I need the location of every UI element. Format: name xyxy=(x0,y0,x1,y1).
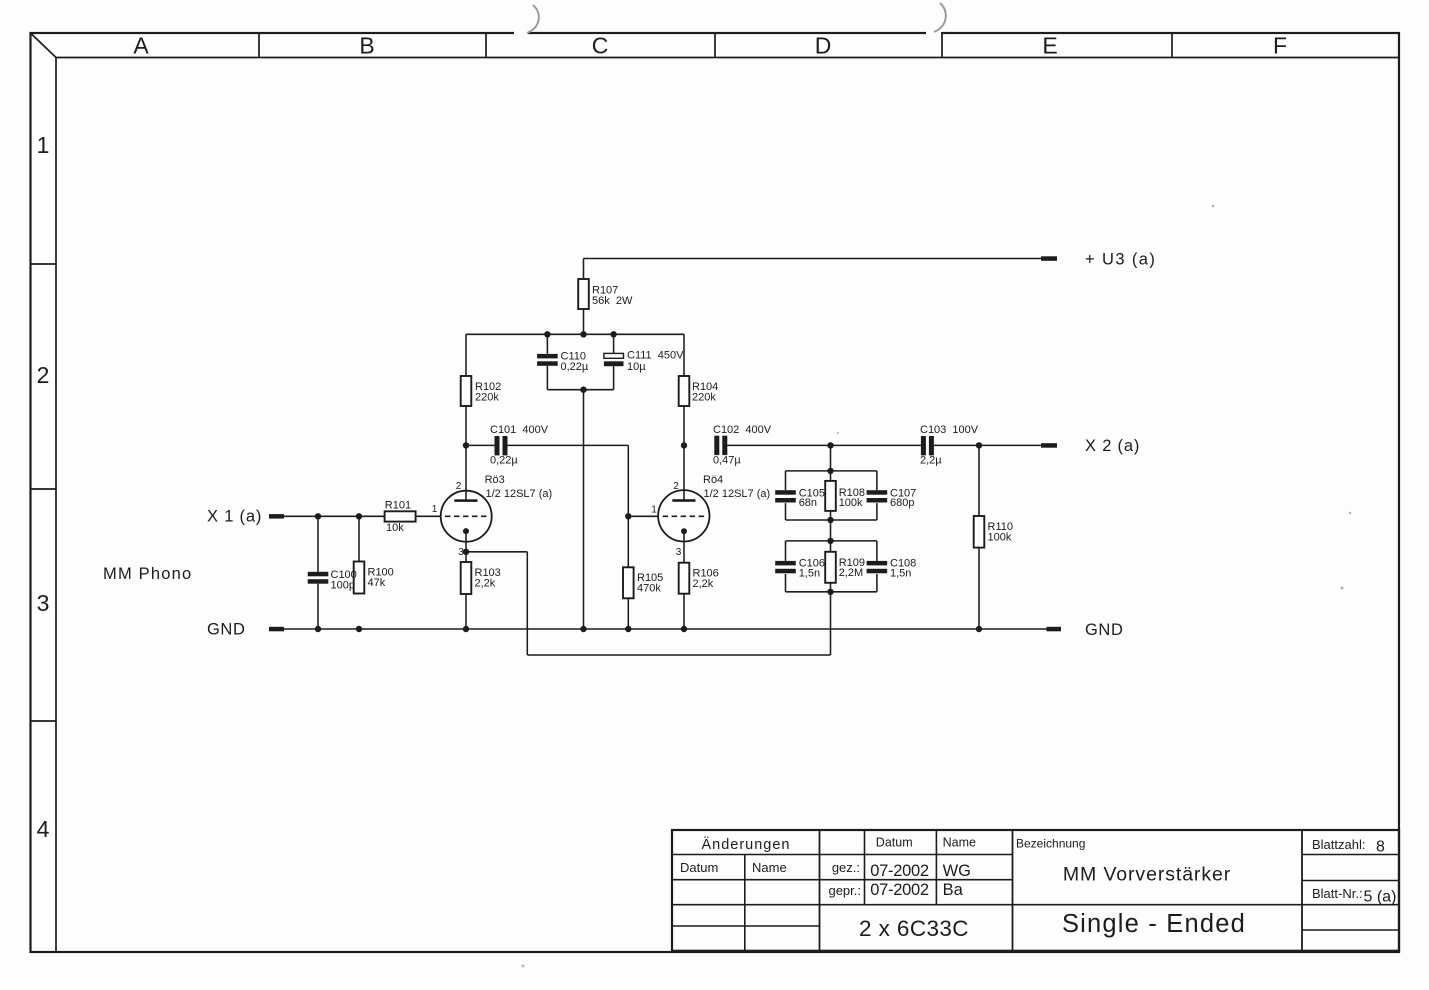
svg-text:GND: GND xyxy=(207,621,245,639)
node R100 top xyxy=(356,513,362,519)
svg-text:X 1 (a): X 1 (a) xyxy=(207,508,262,526)
svg-text:C111 450V: C111 450V xyxy=(627,350,684,362)
svg-text:2,2M: 2,2M xyxy=(839,567,863,579)
resistor R102 xyxy=(465,334,467,376)
svg-text:680p: 680p xyxy=(890,497,914,509)
svg-text:1/2 12SL7 (a): 1/2 12SL7 (a) xyxy=(704,488,771,500)
resistor R109 xyxy=(825,552,836,583)
svg-text:0,22µ: 0,22µ xyxy=(490,454,518,466)
node C100 top xyxy=(315,513,321,519)
svg-text:B: B xyxy=(359,33,374,59)
wire feedback run horizontal xyxy=(527,654,830,656)
capacitor C108 xyxy=(867,561,888,566)
faint scan specks xyxy=(1212,205,1215,208)
svg-text:A: A xyxy=(133,33,149,59)
terminal X 2 (a) xyxy=(1041,443,1057,448)
row tick 2|3 xyxy=(31,488,57,490)
svg-text:Änderungen: Änderungen xyxy=(701,836,790,853)
wire top node row xyxy=(466,333,684,335)
wire C110/C111 bottom xyxy=(547,389,613,391)
node GND decoupling xyxy=(580,626,586,632)
node GND R110 xyxy=(976,626,982,632)
wire grid lead Ro4 xyxy=(628,515,658,517)
column tick D|E xyxy=(941,33,943,58)
svg-text:2,2µ: 2,2µ xyxy=(920,454,942,466)
svg-text:C: C xyxy=(592,33,609,59)
svg-text:2,2k: 2,2k xyxy=(475,578,496,590)
node anode Ro4 / C102 xyxy=(681,442,687,448)
svg-text:10µ: 10µ xyxy=(627,361,646,373)
svg-text:MM Vorverstärker: MM Vorverstärker xyxy=(1063,864,1231,886)
node decoupling ground branch xyxy=(580,387,586,393)
capacitor C105 xyxy=(775,490,796,495)
svg-text:Name: Name xyxy=(752,860,787,875)
scan artifact curl left xyxy=(514,31,528,35)
svg-text:100k: 100k xyxy=(839,497,863,509)
svg-text:1: 1 xyxy=(651,505,657,516)
svg-text:3: 3 xyxy=(37,590,50,616)
node GND R106 xyxy=(681,626,687,632)
svg-text:2: 2 xyxy=(37,362,50,388)
node upper box top xyxy=(827,468,833,474)
node lower box bottom xyxy=(827,589,833,595)
svg-text:100k: 100k xyxy=(988,532,1012,544)
triode U Ro3 xyxy=(441,491,492,552)
capacitor C101 xyxy=(466,444,495,446)
svg-text:1: 1 xyxy=(432,504,438,515)
input terminal X 1 (a) xyxy=(269,514,284,519)
resistor R105 xyxy=(627,516,629,567)
capacitor C106 xyxy=(775,561,796,566)
svg-text:470k: 470k xyxy=(637,583,661,595)
svg-text:E: E xyxy=(1042,33,1057,59)
svg-text:D: D xyxy=(815,33,832,59)
node grid Ro4 / R105 xyxy=(625,513,631,519)
wire GND rail xyxy=(284,628,1047,630)
node GND R103 xyxy=(463,626,469,632)
wire R101 to grid Ro3 xyxy=(416,515,441,517)
svg-text:+ U3 (a): + U3 (a) xyxy=(1085,251,1156,269)
node C111 top xyxy=(610,331,616,337)
svg-text:Ba: Ba xyxy=(943,881,964,899)
capacitor C110 xyxy=(546,334,548,354)
terminal + U3 (a) xyxy=(1041,256,1057,261)
svg-text:2 x 6C33C: 2 x 6C33C xyxy=(859,916,969,941)
svg-text:4: 4 xyxy=(37,816,50,842)
svg-text:8: 8 xyxy=(1376,839,1385,856)
svg-text:Rö3: Rö3 xyxy=(485,474,505,486)
svg-text:2: 2 xyxy=(456,481,462,492)
frame header inner lines xyxy=(56,57,1399,59)
terminal GND left xyxy=(269,627,284,632)
node lower box top xyxy=(827,538,833,544)
wire +U3 supply rail xyxy=(584,258,1050,260)
node RIAA network top xyxy=(827,442,833,448)
resistor R110 xyxy=(978,445,980,516)
svg-text:F: F xyxy=(1273,33,1287,59)
scan artifact curl right xyxy=(926,31,941,35)
RIAA network upper box C105 R108 C107 xyxy=(786,445,877,541)
node upper box bottom xyxy=(827,517,833,523)
svg-text:68n: 68n xyxy=(799,497,817,509)
svg-text:10k: 10k xyxy=(386,522,404,534)
capacitor C107 xyxy=(867,490,888,495)
node GND R100 xyxy=(356,626,362,632)
svg-text:1/2 12SL7 (a): 1/2 12SL7 (a) xyxy=(486,488,553,500)
svg-text:WG: WG xyxy=(943,862,971,880)
wire R107 to node row xyxy=(583,309,585,334)
svg-text:Single - Ended: Single - Ended xyxy=(1062,910,1246,938)
svg-text:Name: Name xyxy=(943,836,976,850)
svg-text:X 2 (a): X 2 (a) xyxy=(1085,437,1140,455)
wire decoupling to GND xyxy=(583,390,585,629)
svg-text:Datum: Datum xyxy=(680,860,718,875)
row tick 1|2 xyxy=(31,263,57,265)
node GND R105 xyxy=(625,626,631,632)
capacitor C102 xyxy=(714,436,719,455)
node C110 top xyxy=(544,331,550,337)
node R110 top xyxy=(976,442,982,448)
svg-text:47k: 47k xyxy=(368,577,386,589)
wire X1 input line xyxy=(284,515,385,517)
svg-text:Blatt-Nr.:: Blatt-Nr.: xyxy=(1312,886,1363,901)
node anode Ro3 / C101 xyxy=(463,442,469,448)
svg-text:1,5n: 1,5n xyxy=(799,568,820,580)
svg-text:100p: 100p xyxy=(331,580,355,592)
svg-text:1: 1 xyxy=(37,132,50,158)
title block verticals xyxy=(745,830,1302,951)
column tick C|D xyxy=(714,33,716,58)
resistor R104 xyxy=(683,334,685,376)
svg-text:Rö4: Rö4 xyxy=(703,474,723,486)
resistor R100 xyxy=(358,516,360,561)
svg-text:3: 3 xyxy=(676,547,682,558)
frame corner diagonal xyxy=(31,33,57,58)
resistor R103 xyxy=(465,552,467,562)
svg-text:2,2k: 2,2k xyxy=(693,578,714,590)
svg-text:GND: GND xyxy=(1085,621,1123,639)
resistor R101 xyxy=(385,511,416,521)
svg-text:C103 100V: C103 100V xyxy=(920,424,979,436)
title block horizontals xyxy=(672,855,1399,931)
RIAA network lower box C106 R109 C108 xyxy=(786,541,877,592)
wire R102 to anode xyxy=(465,406,467,501)
capacitor C111 (electrolytic) xyxy=(613,334,615,353)
column tick B|C xyxy=(485,33,487,58)
svg-text:56k 2W: 56k 2W xyxy=(592,295,633,307)
svg-text:220k: 220k xyxy=(475,392,499,404)
capacitor C103 xyxy=(921,436,926,455)
row tick 3|4 xyxy=(31,720,57,722)
svg-text:07-2002: 07-2002 xyxy=(870,881,929,899)
svg-text:0,22µ: 0,22µ xyxy=(561,361,589,373)
svg-text:0,47µ: 0,47µ xyxy=(713,454,741,466)
column tick A|B xyxy=(258,33,260,58)
wire RIAA network to feedback run xyxy=(830,592,832,655)
terminal GND right xyxy=(1047,627,1062,632)
title block outline xyxy=(672,830,1399,951)
resistor R106 xyxy=(679,563,690,594)
wire R104 to anode Ro4 xyxy=(683,406,685,501)
capacitor C100 xyxy=(317,516,319,572)
node R107 bottom xyxy=(580,331,586,337)
svg-text:C102 400V: C102 400V xyxy=(713,424,772,436)
svg-text:gez.:: gez.: xyxy=(832,860,860,875)
svg-text:Datum: Datum xyxy=(876,836,913,850)
node cathode Ro3 xyxy=(463,549,469,555)
svg-text:5 (a): 5 (a) xyxy=(1364,889,1397,906)
svg-text:R101: R101 xyxy=(385,500,411,512)
svg-text:Blattzahl:: Blattzahl: xyxy=(1312,837,1365,852)
wire feedback riser to Ro3 cathode xyxy=(526,552,528,655)
resistor R107 xyxy=(578,279,589,309)
svg-text:gepr.:: gepr.: xyxy=(828,883,861,898)
svg-text:2: 2 xyxy=(673,481,679,492)
svg-text:MM Phono: MM Phono xyxy=(103,565,192,583)
svg-text:1,5n: 1,5n xyxy=(890,568,911,580)
svg-text:220k: 220k xyxy=(692,392,716,404)
node GND C100 xyxy=(315,626,321,632)
triode U Ro4 xyxy=(658,490,709,563)
svg-text:C101 400V: C101 400V xyxy=(490,424,549,436)
resistor R108 xyxy=(825,481,836,511)
svg-text:Bezeichnung: Bezeichnung xyxy=(1016,837,1085,851)
column tick E|F xyxy=(1171,33,1173,58)
svg-text:07-2002: 07-2002 xyxy=(870,862,929,880)
wire C101 to grid Ro4 xyxy=(627,445,629,516)
